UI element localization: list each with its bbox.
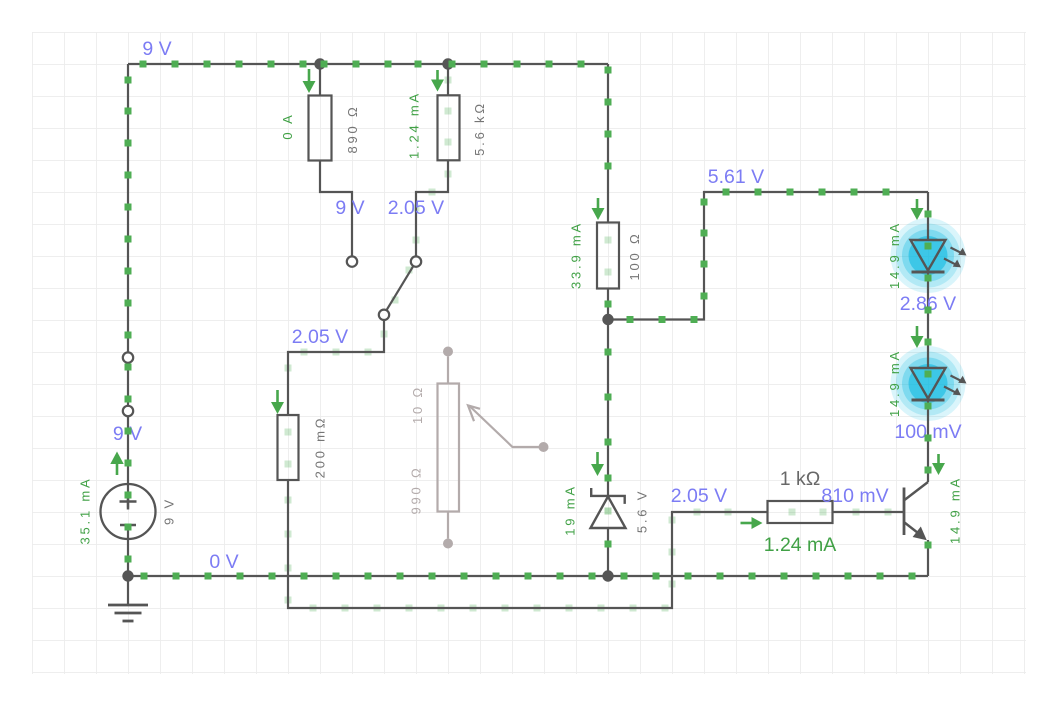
current arrow V1 bbox=[110, 452, 123, 476]
current arrow R5 bbox=[741, 517, 763, 529]
transistor Q1 collector lead bbox=[905, 482, 929, 500]
wire zener bottom to 0V bbox=[607, 528, 609, 576]
V1 minus terminal bbox=[120, 524, 136, 527]
wire 5.6k bottom jog to switch right throw bbox=[416, 160, 448, 256]
switch S2 posts bbox=[347, 256, 357, 266]
wire LED D2 to transistor collector bbox=[927, 401, 929, 483]
svg-text:200 mΩ: 200 mΩ bbox=[313, 416, 328, 479]
wire 890 ohm branch top lead bbox=[319, 64, 321, 96]
svg-text:810 mV: 810 mV bbox=[821, 485, 888, 507]
junction node 0V at D3 bbox=[602, 570, 613, 581]
wire switch S1 to source V1 bbox=[127, 416, 129, 507]
LED D2 glow bbox=[891, 346, 966, 421]
wire 5.6k branch top lead bbox=[447, 64, 449, 95]
svg-text:14.9 mA: 14.9 mA bbox=[948, 476, 963, 544]
current dot in zener bbox=[605, 508, 612, 515]
svg-text:1.24 mA: 1.24 mA bbox=[407, 91, 422, 159]
LED D2 cathode bar bbox=[912, 399, 945, 402]
voltage source V1 9V bbox=[101, 484, 156, 539]
junction node 5.61V bbox=[602, 314, 613, 325]
switch S1 closed lever bbox=[127, 363, 129, 406]
svg-text:33.9 mA: 33.9 mA bbox=[569, 221, 584, 289]
switch S1 posts bbox=[123, 352, 133, 362]
junction node 0V at ground bbox=[122, 570, 133, 581]
potentiometer P1 wiper dot bbox=[539, 442, 549, 452]
svg-text:35.1 mA: 35.1 mA bbox=[78, 476, 93, 544]
current arrow R3 bbox=[592, 198, 605, 220]
transistor Q1 emitter lead with arrow bbox=[905, 523, 927, 541]
svg-text:9 V: 9 V bbox=[162, 497, 177, 525]
wire 100 ohm to node 5.61V bbox=[607, 289, 609, 320]
resistor R1 890 ohm bbox=[309, 96, 332, 161]
svg-text:0 V: 0 V bbox=[209, 551, 238, 573]
wire LED D1 to LED D2 bbox=[927, 273, 929, 369]
V1 plus terminal bbox=[120, 494, 137, 510]
resistor R4 200 mohm bbox=[278, 415, 299, 480]
potentiometer P1 wiper arrow bbox=[468, 405, 544, 447]
wire 200 mOhm bottom crossing 0V to lower net bbox=[288, 480, 768, 608]
wire switch common down and left 2.05V net bbox=[288, 320, 384, 415]
current arrow R2 bbox=[431, 70, 444, 92]
resistor R5 1 kohm bbox=[768, 501, 833, 523]
svg-text:0 A: 0 A bbox=[280, 112, 295, 139]
current dots main loop bbox=[125, 61, 932, 580]
pale current dots (1.24 mA path) bbox=[285, 77, 892, 612]
current arrow D3 bbox=[591, 452, 604, 476]
svg-text:990 Ω: 990 Ω bbox=[409, 465, 424, 514]
svg-text:2.05 V: 2.05 V bbox=[292, 326, 348, 348]
ground symbol bbox=[108, 576, 148, 621]
svg-text:10 Ω: 10 Ω bbox=[410, 385, 425, 424]
svg-text:1.24 mA: 1.24 mA bbox=[764, 534, 837, 556]
svg-text:19 mA: 19 mA bbox=[563, 484, 578, 536]
potentiometer P1 body bbox=[438, 357, 460, 539]
LED D2 light rays bbox=[944, 376, 967, 396]
resistor R2 5.6 kohm bbox=[438, 95, 460, 160]
current arrow R4 bbox=[271, 390, 284, 414]
resistor R3 100 ohm bbox=[597, 223, 619, 289]
current arrow LED D2 bbox=[911, 326, 924, 348]
svg-text:2.05 V: 2.05 V bbox=[671, 485, 727, 507]
svg-text:9 V: 9 V bbox=[142, 38, 171, 60]
potentiometer P1 terminal dots bbox=[443, 347, 453, 357]
wire 100 ohm branch top lead bbox=[607, 64, 609, 223]
svg-text:5.6 kΩ: 5.6 kΩ bbox=[472, 101, 487, 156]
wire 1k resistor to transistor base bbox=[833, 511, 904, 513]
wire 890 ohm bottom jog to switch left throw bbox=[320, 161, 352, 257]
svg-text:14.9 mA: 14.9 mA bbox=[887, 349, 902, 417]
svg-text:890 Ω: 890 Ω bbox=[345, 104, 360, 153]
junction node 9V at R2 bbox=[442, 58, 453, 69]
svg-text:2.05 V: 2.05 V bbox=[388, 197, 444, 219]
LED D2 triangle bbox=[911, 368, 946, 399]
wire down to LED D1 bbox=[927, 192, 929, 240]
wire top 9V net bbox=[128, 63, 608, 65]
wire left from top corner down to switch S1 bbox=[127, 64, 129, 352]
wire source V1 to ground node bbox=[127, 525, 129, 576]
wire bottom 0V net bbox=[128, 575, 928, 577]
svg-text:1 kΩ: 1 kΩ bbox=[780, 468, 821, 490]
svg-text:5.61 V: 5.61 V bbox=[708, 166, 764, 188]
switch S2 lever bbox=[387, 266, 414, 310]
LED D1 cathode bar bbox=[912, 271, 945, 274]
LED D1 triangle bbox=[911, 240, 946, 271]
svg-text:14.9 mA: 14.9 mA bbox=[887, 221, 902, 289]
wire transistor emitter to 0V bbox=[927, 540, 929, 576]
junction node 9V at R1 bbox=[314, 58, 325, 69]
current arrow Q1 collector bbox=[932, 454, 945, 475]
LED D1 glow bbox=[891, 218, 966, 293]
zener diode D3 5.6V cathode bar bbox=[591, 488, 625, 504]
current arrow LED D1 bbox=[911, 199, 924, 220]
svg-text:100 Ω: 100 Ω bbox=[627, 231, 642, 280]
zener diode D3 triangle bbox=[591, 497, 626, 529]
wire node to zener top bbox=[607, 320, 609, 496]
LED D1 light rays bbox=[944, 248, 967, 268]
svg-text:5.6 V: 5.6 V bbox=[635, 489, 650, 533]
current arrow R1 bbox=[303, 69, 316, 93]
transistor Q1 base bar bbox=[903, 488, 906, 536]
wire 5.61V net right and up bbox=[608, 192, 928, 320]
svg-text:9 V: 9 V bbox=[335, 197, 364, 219]
